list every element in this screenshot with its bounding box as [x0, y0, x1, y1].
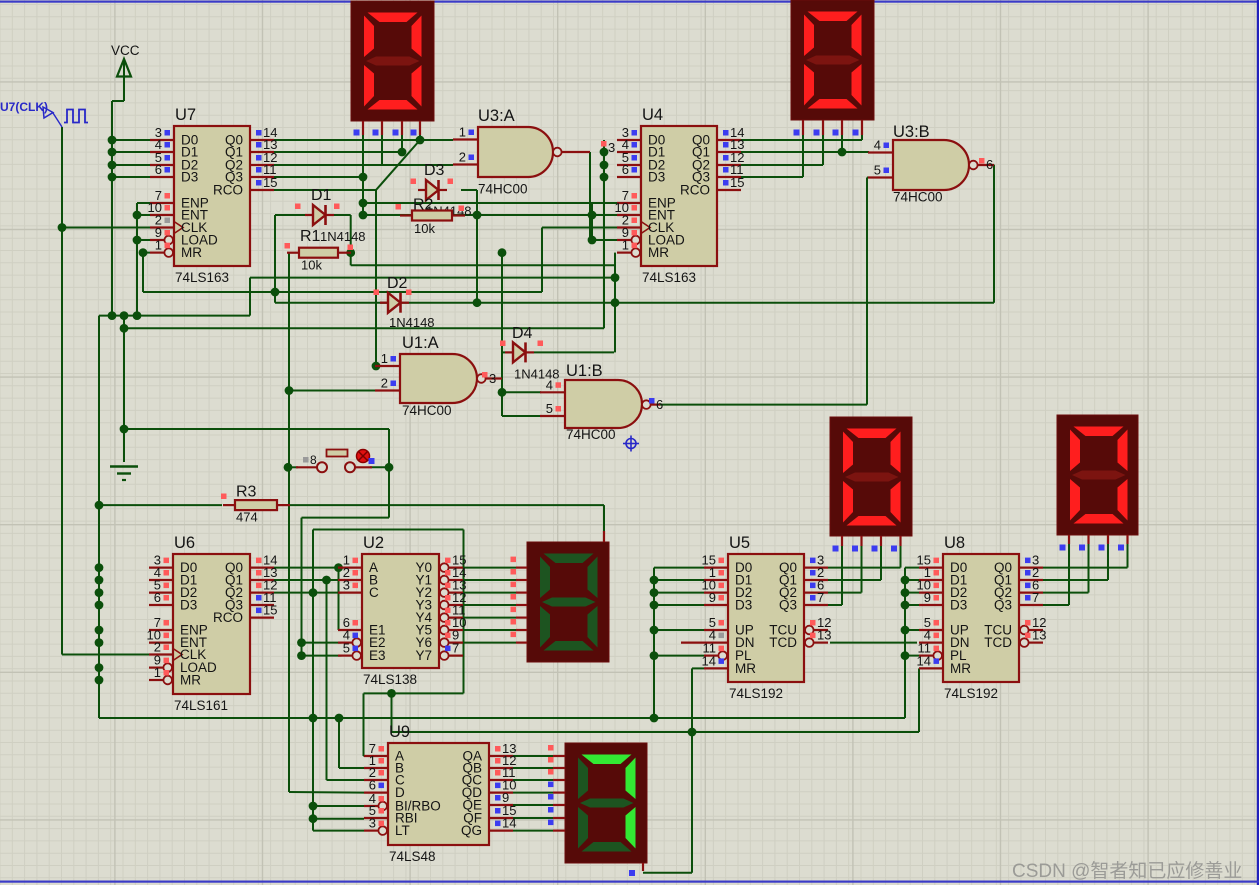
- NAND gate U1:B (74HC00): [565, 380, 642, 428]
- junction at 692,732: [688, 728, 697, 737]
- U4 pin 1 (MR): [617, 252, 631, 254]
- svg-text:7: 7: [1032, 590, 1039, 605]
- U4 pin 12 (Q2): [717, 164, 741, 166]
- IC U4 (74LS163) body: [641, 126, 717, 266]
- wire display4 pin1 drop: [1068, 543, 1070, 605]
- svg-text:Q3: Q3: [994, 598, 1012, 613]
- wire display2 pin4 drop: [861, 135, 863, 140]
- U5 pin 1 (D1): [704, 579, 728, 581]
- wire U2 C wire: [274, 592, 342, 594]
- wire U7 MR drop: [142, 253, 144, 292]
- junction at 326.5,580: [322, 576, 331, 585]
- svg-text:U1:A: U1:A: [402, 334, 439, 352]
- svg-text:MR: MR: [648, 245, 669, 260]
- U6 pin 15 (RCO): [250, 616, 274, 618]
- wire U2 Y5 to display row: [448, 629, 516, 631]
- wire U8 MR wire: [918, 667, 920, 669]
- wire U4 Q3 row: [740, 176, 803, 178]
- U9 pin 3 (LT): [364, 829, 378, 831]
- svg-text:TCD: TCD: [984, 635, 1012, 650]
- wire display1 pin4 drop: [419, 135, 421, 140]
- wire D3 cathode elbow: [461, 189, 477, 191]
- svg-text:U5: U5: [729, 534, 750, 552]
- junction at 905,605: [901, 601, 910, 610]
- svg-text:15: 15: [263, 175, 277, 190]
- wire U8 D0 wire: [905, 567, 919, 569]
- svg-text:6: 6: [656, 397, 663, 412]
- junction at 99,505.1: [95, 501, 104, 510]
- svg-text:1: 1: [459, 125, 466, 140]
- wire display4 pin4 drop: [1127, 543, 1129, 568]
- svg-text:5: 5: [343, 641, 350, 656]
- U4 pin 13 (Q1): [717, 151, 741, 153]
- IC U5 (74LS192) body: [728, 554, 804, 682]
- wire U4 D ground bus: [603, 140, 605, 328]
- U2 pin 9 (Y6): [449, 641, 463, 643]
- junction at 112,165: [108, 161, 117, 170]
- U7 pin 10 (ENT): [150, 214, 174, 216]
- wire net row 292: [143, 291, 542, 293]
- wire U2 E2 wire: [302, 642, 342, 644]
- wire U7 Q0 row: [274, 139, 453, 141]
- junction at 654,605: [650, 601, 659, 610]
- wire U2 E1 wire: [339, 629, 342, 631]
- U4 pin 2 (CLK): [617, 226, 641, 228]
- wire U5 D0 wire: [654, 567, 704, 569]
- wire U8 Q1 row: [1043, 579, 1108, 581]
- svg-text:MR: MR: [181, 245, 202, 260]
- wire U9 QF wire: [513, 817, 553, 819]
- junction at 363,215: [359, 211, 368, 220]
- svg-text:D3: D3: [181, 170, 198, 185]
- junction at 363,177: [359, 173, 368, 182]
- U7 pin 11 (Q3): [250, 176, 274, 178]
- green display1 top pin: [603, 531, 605, 542]
- junction at 288,467.3: [284, 463, 293, 472]
- wire U2 Y2 to display row: [448, 592, 516, 594]
- wire U2 Y3 to display row: [448, 604, 516, 606]
- U6 pin 9 (LOAD): [149, 666, 163, 668]
- U2 pin 14 (Y1): [449, 579, 463, 581]
- svg-text:U7: U7: [175, 106, 196, 124]
- wire U2 A wire: [274, 567, 342, 569]
- svg-text:CSDN @智者知已应修善业: CSDN @智者知已应修善业: [1012, 860, 1242, 882]
- svg-text:6: 6: [622, 162, 629, 177]
- wire U2 E3 wire: [302, 655, 342, 657]
- wire feedback x326: [326, 580, 328, 780]
- U1:B input pin 5: [540, 415, 565, 417]
- wire U8 UP wire: [905, 629, 919, 631]
- wire U1B in4 wire: [502, 391, 541, 393]
- display2 pins: [802, 120, 804, 135]
- IC U2 (74LS138) body: [362, 554, 439, 668]
- svg-text:D3: D3: [180, 598, 197, 613]
- wire U9 A wire: [363, 755, 366, 757]
- junction at 99,580: [95, 576, 104, 585]
- svg-text:2: 2: [381, 376, 388, 391]
- svg-text:9: 9: [709, 590, 716, 605]
- wire U1A out elbow: [501, 379, 503, 393]
- wire U9 B wire: [339, 767, 364, 769]
- U9 pin 7 (A): [364, 755, 388, 757]
- U7 pin 15 (RCO): [250, 189, 274, 191]
- wire row 732 MR net: [392, 731, 920, 733]
- wire display3 pin3 drop: [880, 545, 882, 580]
- push button actuator dot: [357, 450, 370, 463]
- wire U2 Y0 to display row: [448, 567, 516, 569]
- U2 pin 2 (B): [338, 579, 362, 581]
- U7 pin 14 (Q0): [250, 139, 274, 141]
- resistor R2 (10k): [412, 211, 452, 221]
- U3:A input pin 2: [453, 163, 478, 165]
- wire U4 Q0 row: [740, 139, 862, 141]
- junction at 654,592.6: [650, 588, 659, 597]
- wire display3 pin2 drop: [861, 545, 863, 593]
- junction at 905,592.6: [901, 588, 910, 597]
- display1 pins: [362, 121, 364, 135]
- svg-text:1N4148: 1N4148: [320, 229, 366, 244]
- U7 pin 2 (CLK): [150, 226, 174, 228]
- wire button right wire: [370, 466, 389, 468]
- wire U1A in2 wire: [289, 390, 376, 392]
- wire display2 pin3 drop: [841, 135, 843, 152]
- wire D2 stub: [380, 302, 388, 304]
- wire U9 RBI wire: [313, 818, 364, 820]
- wire D1 to R1 drop: [350, 215, 352, 253]
- U1:A input pin 1: [375, 365, 400, 367]
- wire U8 D1 wire: [905, 579, 919, 581]
- wire U2 Y1 to display row: [448, 579, 516, 581]
- svg-text:U9: U9: [389, 723, 410, 741]
- wire U5 UP wire: [654, 629, 704, 631]
- svg-text:D1: D1: [311, 187, 332, 204]
- wire U9 QG wire: [513, 830, 553, 832]
- NAND gate U3:B (74HC00): [893, 140, 969, 190]
- wire U7 D0 wire: [112, 139, 150, 141]
- wire U7 MR wire: [143, 252, 150, 254]
- junction at 289,390.5: [285, 386, 294, 395]
- wire enable drop x301: [301, 518, 303, 656]
- svg-text:6: 6: [154, 590, 161, 605]
- svg-text:MR: MR: [735, 661, 756, 676]
- wire U9 BI wire: [313, 805, 364, 807]
- U8 pin 15 (D0): [919, 566, 943, 568]
- U5 DN long stub: [681, 641, 704, 643]
- svg-text:RCO: RCO: [680, 183, 710, 198]
- svg-text:C: C: [369, 585, 379, 600]
- wire U1B in5 jog: [501, 392, 503, 416]
- wire U8 Q2 row: [1043, 592, 1089, 594]
- U2 pin 5 (E3): [338, 654, 352, 656]
- U9 pin 6 (D): [364, 791, 388, 793]
- IC U8 (74LS192) body: [943, 554, 1019, 682]
- U2 pin 3 (C): [338, 591, 362, 593]
- U9 pin 9 (QE): [489, 804, 513, 806]
- wire display3 pin1 drop: [841, 545, 843, 605]
- wire green display2 pin drop: [691, 732, 693, 873]
- green display1 input pins: [516, 566, 527, 568]
- wire riser x250: [249, 278, 251, 316]
- U2 pin 4 (E2): [338, 641, 352, 643]
- U4 pin 3 (D0): [617, 139, 641, 141]
- U7 pin 6 (D3): [150, 176, 174, 178]
- junction at 112,152: [108, 148, 117, 157]
- svg-text:U7(CLK): U7(CLK): [0, 100, 48, 114]
- wire U4 MR drop: [614, 253, 616, 353]
- wire U9 A riser: [363, 693, 365, 756]
- U8 pin 7 (Q3): [1019, 604, 1043, 606]
- wire row 277: [250, 277, 615, 279]
- wire display2 pin1 drop: [802, 135, 804, 177]
- wire U5 D1 wire: [654, 579, 704, 581]
- svg-text:U8: U8: [944, 534, 965, 552]
- U5 pin 13 (TCD): [814, 641, 828, 643]
- ground symbol: [110, 465, 138, 468]
- U7 pin 1 (MR): [150, 252, 164, 254]
- svg-text:74LS48: 74LS48: [389, 849, 436, 864]
- junction at 615,302.7: [611, 298, 620, 307]
- diode D2 (1N4148): [388, 293, 401, 313]
- wire D1 anode riser: [274, 215, 276, 303]
- svg-text:2: 2: [459, 150, 466, 165]
- U6 pin 12 (Q2): [250, 591, 274, 593]
- wire U2 B wire: [274, 579, 342, 581]
- wire U9 QC wire: [513, 779, 553, 781]
- wire U2 Y6 to display row: [448, 642, 516, 644]
- junction at 477,302.7: [473, 298, 482, 307]
- NAND gate U3:A (74HC00): [478, 127, 553, 177]
- junction at 338.5,567.6: [334, 563, 343, 572]
- right window border: [1257, 0, 1259, 885]
- wire x391 link: [391, 693, 393, 732]
- wire U2 Y4 to display row: [448, 617, 516, 619]
- U1:B output pin: [651, 404, 660, 406]
- svg-text:3: 3: [489, 371, 496, 386]
- U9 pin 4 (BI/RBO): [364, 805, 378, 807]
- wire D1 row: [275, 214, 313, 216]
- U9 pin 10 (QD): [489, 791, 513, 793]
- junction at 137,215: [133, 211, 142, 220]
- U2 pin 11 (Y4): [449, 616, 463, 618]
- junction at 99,592.6: [95, 588, 104, 597]
- svg-text:U2: U2: [363, 534, 384, 552]
- wire U7 ENT wire: [137, 214, 150, 216]
- wire U7 LOAD wire: [137, 239, 150, 241]
- display4 pins: [1068, 535, 1070, 544]
- wire D1 cathode elbow: [326, 214, 351, 216]
- svg-text:74LS161: 74LS161: [174, 698, 228, 713]
- svg-text:RCO: RCO: [213, 610, 243, 625]
- junction at 376,366: [372, 362, 381, 371]
- wire left rail x99: [98, 316, 100, 718]
- svg-text:D2: D2: [387, 275, 408, 292]
- svg-text:D3: D3: [735, 598, 752, 613]
- svg-text:5: 5: [546, 401, 553, 416]
- svg-text:U3:B: U3:B: [893, 123, 930, 141]
- top window border: [0, 1, 1259, 3]
- wire VCC stem: [123, 78, 125, 101]
- wire U7 Q1 row: [274, 151, 402, 153]
- wire U4 Q1 row: [740, 151, 869, 153]
- wire U8 left bus: [904, 568, 906, 718]
- junction at 99,667.6: [95, 663, 104, 672]
- wire U3B in5 riser: [866, 178, 868, 405]
- U8 pin 3 (Q0): [1019, 566, 1043, 568]
- junction at 301.5,642.6: [297, 638, 306, 647]
- U4 pin 11 (Q3): [717, 176, 741, 178]
- junction at 137,240: [133, 236, 142, 245]
- green display2 input pins: [553, 755, 565, 757]
- U6 pin 6 (D3): [149, 604, 173, 606]
- svg-text:Y7: Y7: [415, 648, 432, 663]
- wire U5 MR riser: [691, 668, 693, 732]
- svg-text:1: 1: [154, 665, 161, 680]
- svg-text:Q3: Q3: [779, 598, 797, 613]
- origin marker crosshair: [626, 439, 636, 449]
- junction at 420,140: [416, 136, 425, 145]
- wire U5 D2 wire: [654, 592, 704, 594]
- U8 pin 9 (D3): [919, 604, 943, 606]
- svg-text:7: 7: [817, 590, 824, 605]
- svg-text:QG: QG: [461, 823, 482, 838]
- wire U4 Q2 row: [740, 164, 823, 166]
- wire U7 D3 wire: [112, 176, 150, 178]
- wire U8 Q0 row: [1043, 567, 1128, 569]
- U8 pin 14 (MR): [919, 667, 943, 669]
- 7-segment display DSP2 (red, 0): [791, 0, 874, 120]
- U5 pin 11 (PL): [704, 654, 718, 656]
- svg-text:8: 8: [310, 453, 317, 467]
- U8 pin 6 (Q2): [1019, 591, 1043, 593]
- wire U6 CLK wire: [62, 654, 149, 656]
- wire Y7 drop x463: [463, 530, 465, 694]
- U5 pin 12 (TCU): [814, 629, 828, 631]
- junction at 592,240: [588, 236, 597, 245]
- svg-text:74LS192: 74LS192: [729, 686, 783, 701]
- svg-text:74HC00: 74HC00: [566, 427, 616, 442]
- svg-text:5: 5: [874, 163, 881, 178]
- junction at 313,806: [309, 802, 318, 811]
- U9 pin 11 (QC): [489, 779, 513, 781]
- wire R3 row: [99, 504, 222, 506]
- wire U5 Q2 row: [828, 592, 862, 594]
- wire row 215 ENT: [363, 214, 617, 216]
- U6 pin 4 (D1): [149, 579, 173, 581]
- junction at 905,655.6: [901, 651, 910, 660]
- wire U8 D3 wire: [905, 604, 919, 606]
- U4 pin 15 (RCO): [717, 189, 741, 191]
- junction at 99,630: [95, 626, 104, 635]
- junction at 350.7,252.7: [346, 248, 355, 257]
- wire U7 enable bus: [136, 203, 138, 316]
- U7 pin 3 (D0): [150, 139, 174, 141]
- U1:A output pin: [486, 377, 502, 379]
- wire U5 Q0 row: [828, 567, 901, 569]
- U7 pin 5 (D2): [150, 164, 174, 166]
- wire U5 D3 wire: [654, 604, 704, 606]
- junction at 62,227.5: [58, 223, 67, 232]
- wire U1B out row: [660, 404, 867, 406]
- resistor R1 (10k): [299, 248, 338, 258]
- svg-text:14: 14: [702, 653, 716, 668]
- junction at 124,315.6: [120, 311, 129, 320]
- junction at 402,152: [398, 148, 407, 157]
- wire U8 PL wire: [905, 655, 919, 657]
- U5 pin 9 (D3): [704, 604, 728, 606]
- svg-text:13: 13: [1032, 628, 1046, 643]
- IC U6 (74LS161) body: [173, 554, 250, 694]
- U5 pin 2 (Q1): [804, 579, 828, 581]
- svg-text:15: 15: [263, 603, 277, 618]
- U2 pin 1 (A): [338, 566, 362, 568]
- wire U9 LT wire: [313, 830, 364, 832]
- svg-text:1N4148: 1N4148: [514, 367, 560, 382]
- svg-text:RCO: RCO: [213, 183, 243, 198]
- svg-text:3: 3: [343, 578, 350, 593]
- junction at 339,718: [335, 714, 344, 723]
- wire D4 row left: [502, 351, 505, 353]
- diode D4 (1N4148): [513, 342, 526, 362]
- junction at 654,630: [650, 626, 659, 635]
- U1:B input pin 4: [540, 391, 565, 393]
- junction at 313,592.6: [309, 588, 318, 597]
- wire row 203 to U4 ENP: [363, 202, 592, 204]
- U7 pin 12 (Q2): [250, 164, 274, 166]
- wire U3A out wire: [562, 151, 590, 153]
- U3:B input pin 4: [868, 151, 893, 153]
- U6 pin 7 (ENP): [149, 629, 173, 631]
- svg-text:D3: D3: [424, 162, 445, 179]
- wire U5 MR wire: [692, 667, 704, 669]
- U9 pin 1 (B): [364, 767, 388, 769]
- U3:A input pin 1: [453, 138, 478, 140]
- junction at 604,165: [600, 161, 609, 170]
- U2 pin 7 (Y7): [449, 654, 463, 656]
- wire U9 D wire: [289, 791, 364, 794]
- wire U4 CLK riser: [541, 228, 543, 293]
- wire U1A in1 riser: [375, 190, 377, 366]
- junction at 654,580: [650, 576, 659, 585]
- wire R1 right drop: [350, 253, 352, 266]
- junction at 313,818.7: [309, 814, 318, 823]
- U8 pin 11 (PL): [919, 654, 933, 656]
- junction at 99,605: [95, 601, 104, 610]
- IC U9 (74LS48) body: [388, 743, 489, 845]
- wire display4 pin2 drop: [1088, 543, 1090, 593]
- svg-text:R1: R1: [300, 228, 321, 245]
- wire U1 net drop x502: [501, 253, 503, 393]
- U5 pin 3 (Q0): [804, 566, 828, 568]
- wire button left wire: [288, 466, 298, 468]
- svg-text:14: 14: [502, 816, 516, 831]
- wire U9 QB wire: [513, 767, 553, 769]
- junction at 615,277.6: [611, 273, 620, 282]
- svg-text:D3: D3: [648, 170, 665, 185]
- bottom window border: [0, 881, 1259, 883]
- svg-text:14: 14: [917, 653, 931, 668]
- wire button jog row: [302, 517, 390, 519]
- svg-text:7: 7: [452, 641, 459, 656]
- wire U7 ENP wire: [137, 202, 150, 204]
- U6 pin 5 (D2): [149, 591, 173, 593]
- svg-text:D4: D4: [512, 325, 533, 342]
- wire U7 D1 wire: [112, 151, 150, 153]
- junction at 905,630: [901, 626, 910, 635]
- junction at 842,152: [838, 148, 847, 157]
- diagonal wire RCO to Q0 node: [376, 140, 420, 190]
- U2 pin 12 (Y3): [449, 604, 463, 606]
- diode D3 (1N4148): [426, 180, 439, 200]
